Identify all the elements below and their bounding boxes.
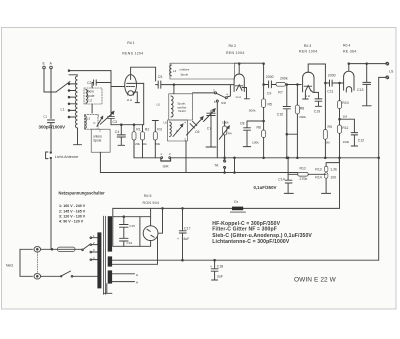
svg-text:L2: L2	[89, 99, 93, 103]
svg-text:1: 160 V - 240 V: 1: 160 V - 240 V	[59, 204, 86, 208]
svg-text:C13: C13	[357, 88, 363, 92]
svg-text:3uF: 3uF	[217, 274, 223, 278]
svg-text:C8: C8	[240, 121, 245, 125]
svg-text:Spule: Spule	[93, 139, 101, 143]
svg-text:H H: H H	[236, 95, 241, 99]
svg-text:Netz: Netz	[6, 264, 13, 268]
svg-text:C1: C1	[43, 115, 47, 119]
svg-text:200k: 200k	[280, 76, 288, 80]
svg-text:4: 90 V - 120 V: 4: 90 V - 120 V	[59, 220, 84, 224]
svg-text:C4: C4	[115, 130, 120, 134]
svg-text:C6: C6	[195, 130, 200, 134]
svg-text:200k: 200k	[299, 115, 306, 119]
svg-text:Rö 1: Rö 1	[127, 41, 134, 45]
svg-text:C12: C12	[358, 138, 364, 142]
svg-text:C11: C11	[327, 90, 333, 94]
svg-text:1M: 1M	[325, 140, 330, 144]
svg-text:2: 145 V - 165 V: 2: 145 V - 165 V	[59, 210, 86, 214]
svg-text:C19: C19	[314, 109, 320, 113]
svg-text:L4: L4	[173, 69, 177, 73]
svg-text:100k: 100k	[252, 140, 259, 144]
svg-text:R5: R5	[268, 102, 273, 106]
svg-text:mittlere: mittlere	[180, 68, 190, 72]
svg-text:C9: C9	[267, 91, 272, 95]
svg-text:C3: C3	[113, 120, 118, 124]
svg-text:REN 1004: REN 1004	[226, 51, 245, 55]
svg-text:4uF: 4uF	[183, 237, 189, 241]
svg-text:30k: 30k	[142, 142, 147, 146]
svg-text:100: 100	[330, 176, 336, 180]
svg-text:C18: C18	[217, 264, 223, 268]
svg-text:R10: R10	[342, 101, 348, 105]
svg-text:Filter-C Gitter NF = 300pF: Filter-C Gitter NF = 300pF	[212, 226, 277, 232]
svg-text:H H: H H	[127, 98, 132, 102]
svg-text:K: K	[94, 121, 96, 125]
svg-text:Spule: Spule	[181, 72, 189, 76]
svg-text:R3: R3	[157, 127, 162, 131]
svg-text:R9: R9	[328, 125, 333, 129]
svg-text:300pF/1000V: 300pF/1000V	[39, 125, 66, 130]
svg-text:Spule: Spule	[86, 94, 94, 98]
svg-text:R11: R11	[342, 126, 348, 130]
svg-text:500k: 500k	[249, 109, 256, 113]
svg-text:+: +	[210, 265, 212, 269]
svg-text:C7: C7	[207, 127, 212, 131]
svg-text:R8: R8	[300, 107, 305, 111]
svg-text:0,1uF/350V: 0,1uF/350V	[254, 185, 277, 190]
svg-text:H: H	[136, 273, 138, 277]
svg-text:Rö 2: Rö 2	[229, 44, 236, 48]
svg-text:270k: 270k	[300, 177, 308, 181]
svg-text:Rö 4: Rö 4	[343, 44, 350, 48]
svg-text:C14: C14	[278, 177, 284, 181]
svg-text:RENS 1204: RENS 1204	[122, 51, 143, 55]
svg-text:C17: C17	[184, 227, 190, 231]
svg-text:S/R: S/R	[221, 101, 227, 105]
svg-text:OWIN E 22 W: OWIN E 22 W	[294, 277, 337, 284]
svg-text:3: 120 V - 130 V: 3: 120 V - 130 V	[59, 215, 86, 219]
svg-text:L5: L5	[157, 102, 161, 106]
svg-text:C5: C5	[158, 75, 163, 79]
svg-text:C16: C16	[127, 241, 133, 245]
svg-text:C10: C10	[277, 112, 283, 116]
svg-text:Draht: Draht	[178, 109, 186, 113]
svg-text:Rö 3: Rö 3	[304, 44, 311, 48]
svg-text:1,2k: 1,2k	[330, 167, 337, 171]
svg-text:K: K	[176, 129, 178, 133]
svg-text:100k: 100k	[343, 140, 350, 144]
svg-text:REN 1004: REN 1004	[299, 49, 318, 53]
svg-text:+: +	[177, 237, 179, 241]
svg-text:R4: R4	[228, 132, 232, 136]
svg-text:2000: 2000	[328, 73, 336, 77]
svg-text:50k: 50k	[155, 142, 160, 146]
svg-text:R12: R12	[300, 167, 306, 171]
svg-text:C15: C15	[129, 224, 135, 228]
svg-text:R6: R6	[257, 125, 262, 129]
svg-text:Licht-Antenne: Licht-Antenne	[55, 155, 78, 159]
svg-text:20k: 20k	[135, 142, 140, 146]
svg-text:Rö 5: Rö 5	[144, 194, 151, 198]
svg-text:R13: R13	[315, 167, 321, 171]
svg-text:Netzspannungsschalter: Netzspannungsschalter	[59, 191, 106, 196]
svg-text:2000: 2000	[266, 75, 274, 79]
svg-text:G/R: G/R	[163, 164, 169, 168]
svg-text:RE 364: RE 364	[343, 49, 356, 53]
svg-text:R1: R1	[136, 127, 141, 131]
svg-text:H H: H H	[305, 94, 310, 98]
svg-text:L1: L1	[61, 107, 65, 111]
svg-text:Lichtantenne-C = 300pF/1000V: Lichtantenne-C = 300pF/1000V	[212, 239, 290, 245]
svg-text:R2: R2	[145, 127, 150, 131]
svg-text:1M: 1M	[343, 114, 348, 118]
svg-text:C2: C2	[87, 81, 92, 85]
svg-text:H: H	[136, 281, 138, 285]
svg-text:R7: R7	[278, 90, 283, 94]
svg-text:LS: LS	[389, 69, 394, 73]
svg-text:R14: R14	[315, 176, 321, 180]
svg-text:100k: 100k	[222, 120, 229, 124]
svg-text:RGN 504: RGN 504	[143, 201, 160, 205]
svg-text:L3: L3	[87, 117, 91, 121]
svg-text:L6: L6	[164, 120, 168, 124]
